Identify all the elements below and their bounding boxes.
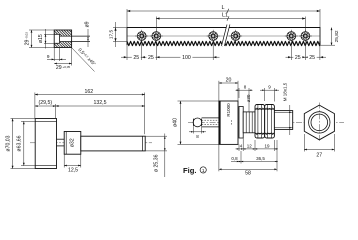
dimensions 0.8 and 36.5	[240, 151, 242, 164]
svg-text:25: 25	[295, 55, 301, 61]
svg-text:ø15: ø15	[38, 34, 44, 43]
dimension M18x1.5	[289, 105, 291, 135]
svg-text:ø70,03: ø70,03	[6, 135, 12, 151]
bushing phi9 bore lines	[60, 35, 90, 37]
chamfer note 0.5x45	[72, 48, 95, 72]
gear hub neck	[57, 138, 65, 140]
rack body	[127, 28, 320, 46]
bushing counterbore step	[59, 34, 61, 43]
adjuster stem	[202, 117, 219, 119]
svg-text:100: 100	[182, 55, 191, 61]
rack hole centerline	[127, 35, 320, 37]
svg-text:162: 162	[84, 89, 93, 95]
svg-text:M 18x1,5: M 18x1,5	[282, 82, 287, 101]
svg-text:58: 58	[245, 171, 251, 177]
svg-text:9: 9	[47, 54, 50, 59]
svg-text:25: 25	[309, 55, 315, 61]
threaded rod M18x1.5	[274, 111, 292, 130]
svg-text:ø 25,36: ø 25,36	[154, 154, 160, 172]
dimension 25.82 right of rack	[320, 44, 335, 46]
rack bottom dimensions 25 25 100	[126, 45, 128, 60]
svg-text:Fig.: Fig.	[183, 166, 197, 175]
svg-text:17,5: 17,5	[109, 30, 115, 40]
rack bottom right dimensions 25 25	[290, 43, 292, 61]
hidden hex flats	[202, 119, 232, 121]
svg-text:ø63,66: ø63,66	[16, 135, 22, 151]
dimension L1	[155, 17, 157, 32]
svg-text:25: 25	[148, 55, 154, 61]
rack mounting hole 5	[285, 35, 298, 37]
svg-text:(29,5): (29,5)	[39, 100, 53, 106]
bushing outline	[54, 30, 71, 48]
dimension L	[126, 9, 128, 28]
lock nut 2	[265, 105, 275, 139]
dimension 58	[218, 144, 220, 171]
rack mounting hole 4	[229, 35, 242, 37]
svg-text:L: L	[221, 5, 224, 11]
dimension phi63.66	[21, 120, 35, 122]
dimension phi9	[87, 29, 89, 36]
dimension 12.5 hub width	[63, 154, 65, 167]
dimension 8 collar	[238, 88, 240, 98]
adjuster centerline	[188, 121, 344, 123]
svg-text:20: 20	[226, 77, 232, 83]
dimension phi40	[178, 100, 219, 102]
dimension phi70.03	[11, 118, 36, 120]
svg-text:12,5: 12,5	[68, 168, 78, 174]
pinion gear disc	[35, 119, 56, 169]
svg-text:36,5: 36,5	[256, 156, 265, 161]
gear pitch lines	[35, 120, 56, 122]
dimension 17.5 left of rack	[113, 27, 127, 29]
svg-text:27: 27	[316, 153, 322, 159]
hex wrench end	[193, 118, 202, 127]
washer ring	[239, 107, 243, 139]
dimension 8 wrench flats	[192, 127, 194, 134]
svg-text:132,5: 132,5	[94, 100, 107, 106]
dimension phi15	[44, 33, 54, 35]
shaft collar phi32	[64, 132, 81, 155]
bushing hatching	[54, 30, 59, 34]
svg-text:ø9: ø9	[85, 21, 91, 27]
dimension 20 cylinder	[218, 81, 220, 101]
bushing phi15 bore lines	[54, 33, 59, 35]
dimension 29 +0.05 bottom	[71, 48, 73, 66]
hidden hex socket end	[231, 120, 233, 124]
dimension (29.5) and 132.5	[55, 104, 57, 119]
svg-text:ø32: ø32	[70, 138, 76, 147]
hex nut end view	[304, 105, 334, 140]
rack mounting hole 2	[150, 35, 163, 37]
svg-text:25,82: 25,82	[334, 30, 340, 42]
svg-text:0,8: 0,8	[231, 156, 238, 161]
svg-text:25: 25	[133, 55, 139, 61]
dimension 9 counterbore depth	[53, 48, 55, 62]
dimension 29 -0.02 left	[29, 29, 54, 31]
pinion shaft	[81, 136, 145, 151]
rack break lines	[222, 25, 230, 47]
adjuster cylinder body	[219, 101, 238, 144]
dimension 9 nut	[264, 88, 266, 101]
svg-text:1: 1	[202, 168, 205, 174]
svg-text:L1: L1	[222, 13, 228, 19]
rack mounting hole 1	[135, 35, 148, 37]
svg-text:ø30: ø30	[246, 94, 251, 102]
lock nut 1	[255, 105, 265, 139]
pinion centerline	[30, 142, 152, 144]
dimension 27	[303, 134, 305, 152]
svg-text:19: 19	[264, 143, 270, 148]
rack mounting hole 6	[299, 35, 312, 37]
collar spacer stack	[243, 112, 255, 133]
svg-text:12: 12	[247, 143, 253, 148]
svg-text:R1000: R1000	[226, 103, 231, 117]
dimension 162	[34, 93, 36, 119]
dimension phi25.36 shaft	[145, 135, 167, 137]
svg-text:ø40: ø40	[173, 118, 179, 127]
rack mounting hole 3	[207, 35, 220, 37]
rack teeth	[127, 41, 320, 45]
dimensions 4 12 19	[238, 144, 240, 151]
